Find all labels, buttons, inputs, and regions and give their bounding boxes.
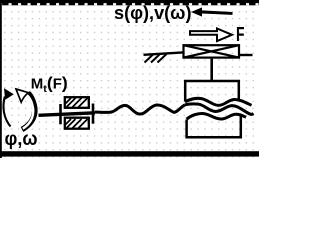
svg-text:Mt(F): Mt(F)	[31, 73, 68, 95]
svg-text:s(φ),v(ω): s(φ),v(ω)	[114, 3, 192, 23]
friction element box (crossed box)	[184, 45, 240, 57]
lower friction pad	[187, 114, 241, 137]
upper pad bottom wavy edge	[185, 98, 252, 105]
bearing right wall	[92, 104, 95, 124]
bearing upper block	[65, 97, 89, 108]
force arrow F (open outline, pointing right)	[190, 29, 232, 42]
bearing left wall	[59, 104, 62, 124]
svg-text:φ,ω: φ,ω	[5, 129, 38, 150]
upper friction pad	[185, 81, 239, 102]
rope (wavy shaft continuation)	[95, 105, 185, 114]
shaft	[39, 113, 96, 116]
paper background with dot grid	[0, 0, 259, 158]
rotation arrow thin arc with solid head	[3, 88, 13, 126]
rope wave inside pads	[185, 104, 254, 115]
right stub of crossed box	[240, 54, 253, 56]
bearing lower block	[65, 118, 89, 129]
lower pad top wavy edge	[187, 113, 246, 119]
bottom black band	[0, 151, 259, 156]
left black edge bar	[0, 0, 2, 158]
velocity arrow (solid, pointing left)	[191, 7, 233, 16]
wall hatching	[145, 54, 167, 63]
svg-text:F: F	[236, 24, 245, 46]
connector rod from box to upper pad	[210, 59, 213, 82]
rotation arrow ribbon (outline curved arrow)	[16, 89, 35, 130]
top torn black band	[0, 0, 259, 5]
wall ground line	[144, 52, 184, 54]
